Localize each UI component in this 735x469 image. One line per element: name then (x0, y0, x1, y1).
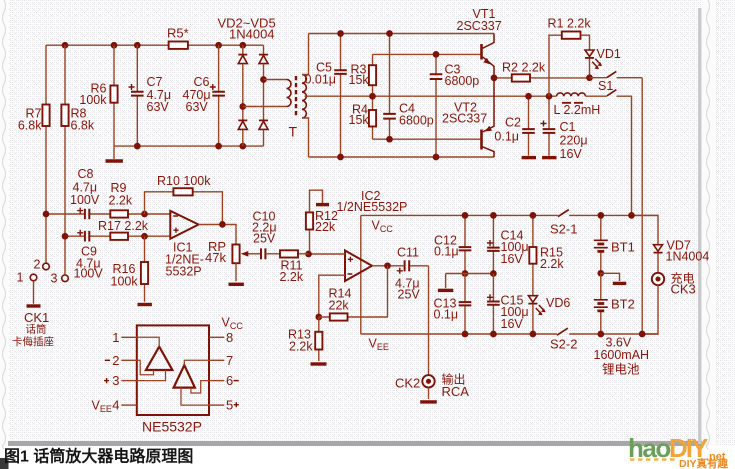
wire VT1 base line (373, 53, 482, 55)
junction C4 top (386, 30, 393, 37)
junction C15 bottom (490, 331, 497, 338)
junction feedback R14 (315, 314, 322, 321)
connector CK3 (652, 273, 664, 285)
capacitor C15 (492, 274, 494, 302)
wire IC2 inverting input (319, 275, 345, 317)
junction VD1 switch (586, 74, 593, 81)
capacitor C9 (85, 231, 89, 242)
junction C13 bottom (462, 331, 469, 338)
svg-text:0.1μ: 0.1μ (434, 245, 459, 259)
svg-text:1N4004: 1N4004 (666, 250, 710, 264)
svg-text:16V: 16V (501, 252, 524, 266)
op-amp IC2 (345, 251, 372, 282)
capacitor C8 (85, 209, 89, 220)
ground RP (229, 283, 244, 286)
resistor R10 feedback (145, 192, 223, 225)
junction bridge AC2 (239, 103, 246, 110)
wire negative rail VEE (361, 333, 658, 335)
diode VD4 (238, 119, 247, 121)
ground C2 (522, 156, 536, 159)
junction R3 R4 centre tap (369, 93, 376, 100)
wire filter ground rail (114, 145, 264, 147)
connector CK1 pin3 (62, 275, 69, 282)
junction VT1 emitter (491, 75, 498, 82)
svg-text:CK3: CK3 (671, 282, 696, 297)
svg-text:S1: S1 (598, 79, 613, 93)
svg-text:2: 2 (34, 258, 41, 272)
logo haoDIY (628, 433, 729, 469)
connector CK1 pin1 (30, 274, 37, 281)
junction C2 tap rail (525, 93, 532, 100)
resistor R3 (372, 54, 374, 96)
junction C5 top (337, 30, 344, 37)
svg-text:1: 1 (17, 271, 24, 285)
wire emitter VT1 node (494, 77, 590, 79)
junction battery bottom (597, 331, 604, 338)
op-amp A inside NE5532P (146, 347, 173, 370)
svg-text:3: 3 (112, 373, 119, 388)
svg-text:100V: 100V (74, 267, 104, 281)
op-amp B inside NE5532P (174, 365, 195, 387)
capacitor C4 (389, 34, 391, 114)
svg-text:6800p: 6800p (399, 114, 434, 128)
junction C14 bottom (490, 270, 497, 277)
svg-text:25V: 25V (253, 232, 276, 246)
svg-text:22k: 22k (329, 299, 350, 313)
resistor R1 (549, 35, 562, 96)
wire hot input line (46, 213, 170, 215)
svg-text:22k: 22k (315, 220, 336, 234)
svg-text:L 2.2mH: L 2.2mH (554, 103, 601, 117)
svg-text:R10 100k: R10 100k (157, 174, 211, 188)
svg-text:100V: 100V (70, 193, 100, 207)
resistor R16 (144, 236, 146, 302)
wire to output jack (428, 266, 430, 375)
junction C4 bottom (386, 136, 393, 143)
junction R8 input (62, 233, 69, 240)
svg-text:DIY真有趣: DIY真有趣 (679, 457, 729, 469)
ground battery mid (601, 273, 620, 281)
junction charger tap (628, 212, 635, 219)
svg-text:1600mAH: 1600mAH (594, 348, 650, 362)
resistor R13 (318, 317, 320, 361)
battery BT2 (600, 273, 602, 334)
resistor R11 (280, 250, 298, 257)
svg-text:2.2k: 2.2k (289, 340, 313, 354)
svg-text:C11: C11 (397, 246, 419, 260)
junction top rail bridge (239, 42, 246, 49)
svg-text:2: 2 (112, 353, 119, 368)
svg-text:1/2NE5532P: 1/2NE5532P (337, 200, 408, 214)
pin 3 (121, 380, 137, 382)
wire IC2 supply drop (360, 215, 362, 334)
svg-text:0.01μ: 0.01μ (304, 73, 336, 87)
battery BT1 (600, 215, 602, 273)
junction C5 bottom (337, 154, 344, 161)
svg-text:5: 5 (226, 398, 233, 413)
capacitor C3 (435, 54, 437, 74)
svg-text:5532P: 5532P (166, 265, 202, 279)
svg-text:25V: 25V (398, 288, 421, 302)
svg-text:2SC337: 2SC337 (442, 112, 487, 126)
wire IC2 output (372, 265, 429, 267)
resistor R8 (64, 45, 66, 275)
svg-text:15k: 15k (349, 113, 370, 127)
svg-text:C7: C7 (147, 75, 163, 89)
svg-text:S2-1: S2-1 (550, 222, 577, 237)
svg-text:RCA: RCA (442, 384, 470, 399)
transformer T core (295, 76, 297, 118)
capacitor C14 (492, 215, 494, 247)
switch S1 lower pole (586, 95, 607, 97)
junction C12 top (462, 212, 469, 219)
svg-text:锂电池: 锂电池 (602, 362, 640, 377)
junction inverting node (141, 211, 148, 218)
switch S2-2 (557, 328, 568, 335)
wire output to feedback (387, 266, 389, 317)
junction gnd rail C6 (215, 143, 222, 150)
svg-text:0.1μ: 0.1μ (434, 308, 459, 322)
junction C14 top (490, 212, 497, 219)
junction VD6 bottom (530, 331, 537, 338)
svg-text:0.1μ: 0.1μ (494, 130, 519, 144)
svg-text:C8: C8 (78, 167, 94, 181)
junction gnd rail bridge (239, 143, 246, 150)
diode VD3 (263, 45, 265, 54)
junction top rail R8 (62, 42, 69, 49)
svg-text:BT1: BT1 (611, 240, 635, 255)
wire top supply rail (46, 44, 264, 46)
svg-text:6: 6 (226, 373, 233, 388)
RP wiper arrow (246, 253, 260, 255)
capacitor C13 (464, 274, 466, 303)
svg-text:VD1: VD1 (597, 47, 621, 61)
wire IC1 output (199, 225, 237, 245)
potentiometer RP (232, 245, 239, 264)
resistor R5 (169, 42, 188, 49)
connector CK2 (422, 375, 434, 387)
wire IC2 noninverting input (309, 253, 346, 255)
svg-text:4: 4 (112, 398, 119, 413)
resistor R17 (110, 233, 128, 240)
diode VD5 (259, 119, 268, 121)
pin 5 (209, 404, 224, 406)
svg-text:R17 2.2k: R17 2.2k (98, 219, 149, 233)
svg-text:220μ: 220μ (560, 134, 588, 148)
transistor VT1 (480, 44, 483, 60)
wire oscillator bottom rail (309, 156, 495, 158)
IC package NE5532P (137, 325, 209, 415)
wire VT2 base line (373, 138, 482, 140)
ground R13 (311, 362, 327, 365)
capacitor C5 (340, 34, 342, 71)
diode VD2 (242, 45, 244, 54)
ground C1 (542, 156, 556, 159)
pin 2 (121, 359, 137, 361)
svg-text:BT2: BT2 (611, 297, 635, 312)
LED VD6 (528, 296, 537, 302)
svg-text:2.2k: 2.2k (280, 270, 304, 284)
svg-text:图1 话筒放大器电路原理图: 图1 话筒放大器电路原理图 (4, 447, 193, 466)
svg-text:47k: 47k (205, 250, 226, 265)
connector CK1 pin2 (43, 263, 50, 270)
LED VD1 (585, 50, 594, 56)
junction noninverting node (141, 233, 148, 240)
wire positive rail Vcc (361, 214, 658, 216)
svg-text:C6: C6 (194, 75, 210, 89)
inductor L (557, 93, 586, 96)
wire L to rail (617, 96, 632, 215)
wire cold input line (65, 235, 170, 237)
wire secondary centre tap rail (305, 95, 557, 97)
diode VD7 (632, 215, 659, 244)
junction battery top (597, 212, 604, 219)
resistor R9 (110, 210, 128, 217)
svg-text:16V: 16V (560, 147, 583, 161)
capacitor C11 (405, 260, 410, 271)
junction R7 input (43, 211, 50, 218)
switch S1 upper pole (590, 77, 607, 79)
capacitor C7 (136, 45, 138, 92)
transistor VT2 (480, 130, 483, 150)
svg-text:16V: 16V (501, 317, 524, 331)
junction IC2 output (384, 262, 391, 269)
svg-text:2.2k: 2.2k (109, 194, 133, 208)
capacitor C12 (464, 215, 466, 247)
svg-text:C1: C1 (560, 120, 576, 134)
pin 7 (209, 359, 224, 361)
junction C3 bottom (433, 154, 440, 161)
svg-text:1: 1 (112, 330, 119, 345)
wire bridge to primary top (264, 79, 287, 81)
svg-text:2.2k: 2.2k (540, 257, 564, 271)
junction gnd rail C7 (134, 143, 141, 150)
junction C3 top (433, 51, 440, 58)
junction top rail C7 (134, 42, 141, 49)
resistor R4 (372, 96, 374, 139)
wire bridge to primary bottom (243, 106, 287, 108)
svg-text:63V: 63V (186, 100, 209, 114)
junction C12 bottom (462, 270, 469, 277)
ground mid rail (445, 274, 447, 289)
capacitor C2 (528, 96, 530, 129)
pin 8 (209, 336, 224, 338)
junction IC1 output (219, 221, 226, 228)
svg-text:2SC337: 2SC337 (457, 19, 502, 33)
op-amp IC1 (170, 211, 198, 239)
pin 4 (121, 404, 137, 406)
junction top rail R6 (111, 42, 118, 49)
svg-text:VD6: VD6 (546, 296, 570, 310)
wire oscillator top rail (309, 33, 495, 35)
junction C1 tap rail (546, 93, 553, 100)
svg-text:6.8k: 6.8k (18, 119, 42, 133)
resistor R15 (532, 215, 534, 295)
svg-text:63V: 63V (147, 100, 170, 114)
wire S1 to negative rail (641, 78, 643, 334)
ground power filter (113, 146, 115, 159)
switch S2-1 (558, 210, 569, 217)
ground R16 (138, 303, 152, 306)
pin 6 (209, 380, 224, 382)
svg-text:7: 7 (226, 353, 233, 368)
wire secondary top lead (302, 34, 309, 75)
svg-text:1N4004: 1N4004 (229, 27, 275, 42)
junction battery mid (597, 270, 604, 277)
svg-text:S2-2: S2-2 (550, 337, 577, 352)
junction IC2 + input (305, 251, 312, 258)
resistor R2 (512, 74, 530, 81)
capacitor C10 (261, 248, 265, 259)
wire C10 to R11 (265, 253, 308, 255)
svg-text:C2: C2 (505, 116, 521, 130)
wire secondary bottom lead (302, 118, 309, 157)
ground CK2 (420, 400, 437, 403)
svg-text:R1 2.2k: R1 2.2k (548, 17, 592, 31)
svg-text:CK2: CK2 (395, 376, 420, 391)
svg-text:R2 2.2k: R2 2.2k (502, 61, 546, 75)
ground CK1 (33, 281, 35, 304)
resistor R6 (113, 45, 115, 146)
capacitor C6 (218, 45, 220, 92)
wire mid ground rail (446, 273, 494, 275)
svg-text:话筒: 话筒 (26, 323, 47, 336)
svg-text:NE5532P: NE5532P (142, 419, 202, 435)
resistor R14 (319, 316, 388, 318)
svg-text:15k: 15k (349, 73, 370, 87)
svg-text:8: 8 (226, 330, 233, 345)
resistor R7 (45, 45, 47, 263)
pin 1 (121, 336, 137, 338)
junction S1 drop VEE (639, 331, 646, 338)
svg-text:3: 3 (51, 272, 58, 286)
svg-text:6800p: 6800p (445, 74, 480, 88)
transformer T primary winding (287, 80, 292, 107)
transformer T secondary winding (302, 75, 306, 119)
capacitor C1 (548, 96, 550, 129)
svg-text:T: T (289, 124, 298, 140)
svg-text:6.8k: 6.8k (71, 119, 95, 133)
resistor R12 (309, 212, 311, 254)
svg-text:卡侮插座: 卡侮插座 (12, 335, 54, 348)
junction R15 top (530, 212, 537, 219)
ground R12 bias (310, 190, 323, 212)
junction top rail C6 (215, 42, 222, 49)
junction bridge AC1 (260, 76, 267, 83)
svg-text:100k: 100k (79, 93, 107, 107)
svg-text:R5*: R5* (167, 26, 189, 41)
svg-text:100k: 100k (111, 275, 139, 289)
